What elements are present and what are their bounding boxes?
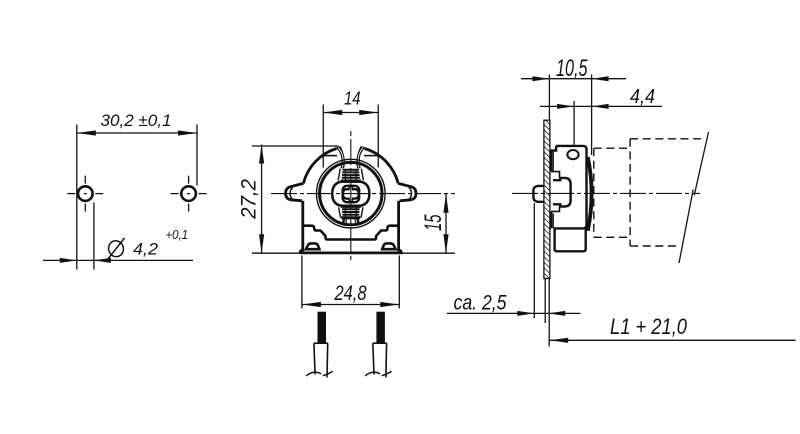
contact hook left: [343, 189, 350, 198]
dim 30,2 line: [77, 125, 197, 270]
spring coil bottom: [342, 209, 360, 214]
svg-text:+0,1: +0,1: [166, 228, 189, 242]
spring slot verticals top: [345, 169, 356, 181]
pin right sleeve: [373, 343, 387, 377]
centerline vertical: [350, 131, 352, 262]
svg-text:ca. 2,5: ca. 2,5: [454, 291, 507, 314]
crosshair left hole: [67, 176, 103, 212]
svg-text:4,2: 4,2: [133, 240, 159, 259]
dim 30,2 arrows: [77, 130, 197, 135]
pin left sleeve: [314, 343, 328, 377]
side body outline: [555, 146, 587, 251]
spring coil top: [342, 170, 360, 178]
dashed cap left vertical: [593, 148, 595, 237]
body side right vertical: [397, 201, 400, 251]
mushroom pin head: [533, 186, 544, 202]
dim dia 4,2 line: [43, 203, 193, 270]
ring inner thick circle: [320, 162, 382, 224]
spring slot verticals bottom: [345, 207, 356, 217]
hub notches: [349, 186, 352, 202]
inner horizontal edge line: [324, 155, 337, 157]
dim 10,5: [521, 75, 626, 156]
latch button: [553, 178, 571, 207]
tube end face arc: [588, 157, 592, 231]
dim L1 + 21,0: [549, 339, 795, 341]
spring side wall bottom: [339, 207, 363, 217]
body face inner line: [552, 151, 554, 228]
dim dia 4,2 arrows (outside): [60, 258, 111, 263]
body side left vertical: [301, 201, 304, 251]
dashed glass vertical: [629, 139, 631, 246]
hub bottom bar: [341, 204, 361, 207]
top slot wall left: [336, 146, 345, 168]
body outer arc: [303, 149, 336, 184]
dim 15: [400, 194, 455, 253]
pin left black: [318, 312, 327, 343]
screw hole ellipse: [567, 150, 578, 159]
ear left inner mark: [290, 187, 293, 199]
dim 24,8: [302, 256, 399, 309]
base step contour: [303, 226, 398, 240]
dim 27,2: [252, 145, 339, 254]
foot hole left: [306, 243, 319, 249]
ring outer thin circle: [317, 159, 386, 228]
crosshair right hole: [171, 176, 207, 212]
hub top bar: [341, 179, 361, 182]
svg-text:10,5: 10,5: [556, 55, 588, 82]
svg-text:24,8: 24,8: [334, 281, 367, 305]
hole circle right: [181, 186, 196, 201]
spring side wall top left: [338, 169, 363, 181]
dashed glass top: [630, 138, 705, 140]
dashed cap bottom: [594, 236, 630, 238]
centerline horizontal: [271, 193, 455, 195]
dim ca 2,5: [447, 203, 581, 347]
svg-text:30,2 ±0,1: 30,2 ±0,1: [101, 112, 172, 130]
svg-text:27,2: 27,2: [237, 179, 261, 220]
pin right break marks: [365, 371, 391, 376]
foot hole right: [382, 243, 395, 249]
rotor barrel: [332, 181, 369, 206]
svg-text:4,4: 4,4: [630, 86, 655, 108]
ear left: [286, 183, 304, 200]
bottom slot walls: [343, 219, 359, 225]
pin right black: [376, 312, 385, 343]
dia symbol: [107, 238, 125, 260]
hub inner: [343, 186, 360, 202]
svg-text:15: 15: [420, 214, 447, 231]
side centerline: [512, 192, 700, 194]
rotor bottom bar: [341, 216, 360, 219]
dashed glass bottom: [630, 245, 677, 247]
break diagonal: [679, 132, 709, 263]
side body top-left notch: [551, 146, 556, 229]
latch step top: [551, 172, 559, 178]
ear right inner mark: [409, 187, 412, 199]
svg-text:L1 + 21,0: L1 + 21,0: [610, 314, 688, 339]
svg-text:14: 14: [344, 87, 361, 108]
latch step bottom: [551, 207, 559, 212]
pin left break marks: [306, 371, 332, 376]
panel plate hatched: [544, 120, 550, 278]
dim 14: [323, 105, 378, 168]
top slot wall right: [356, 146, 365, 168]
hole circle left: [78, 186, 93, 201]
base bottom: [300, 250, 401, 253]
ear right: [398, 183, 416, 200]
dashed cap top: [594, 147, 630, 149]
contact hook right: [352, 189, 359, 198]
dim 4,4: [540, 101, 662, 146]
